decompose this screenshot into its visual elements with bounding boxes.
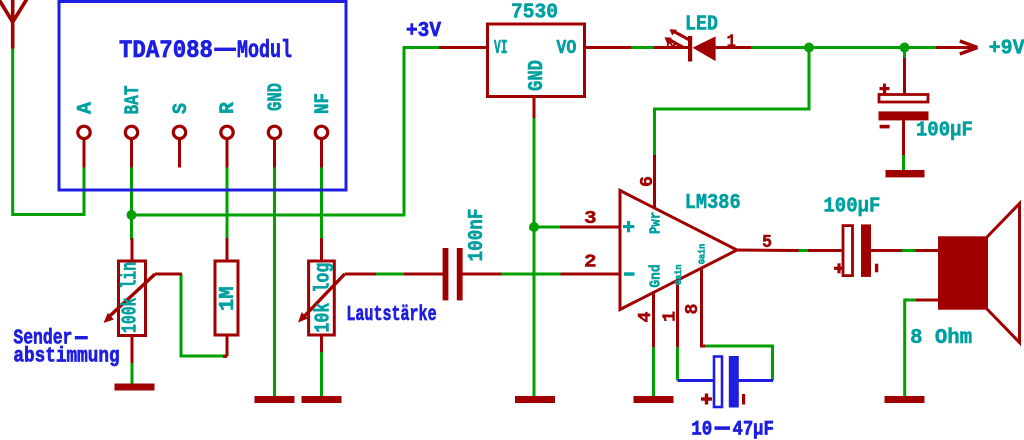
svg-text:6: 6 (638, 176, 658, 187)
svg-text:+3V: +3V (406, 20, 441, 43)
svg-text:LED: LED (685, 14, 718, 37)
svg-text:3: 3 (584, 209, 597, 229)
svg-text:A: A (74, 101, 97, 114)
svg-text:VI: VI (494, 37, 508, 59)
svg-text:10k log: 10k log (312, 263, 335, 333)
svg-text:5: 5 (762, 233, 772, 253)
svg-text:2: 2 (584, 253, 597, 273)
svg-text:47µF: 47µF (733, 419, 774, 440)
svg-text:VO: VO (556, 37, 576, 59)
svg-text:8 Ohm: 8 Ohm (910, 327, 972, 350)
svg-text:100nF: 100nF (466, 209, 489, 262)
svg-text:NF: NF (312, 93, 335, 114)
svg-text:Gnd: Gnd (648, 264, 665, 287)
svg-text:Pwr: Pwr (648, 212, 665, 234)
svg-text:7530: 7530 (511, 2, 558, 25)
svg-text:4: 4 (636, 311, 656, 322)
svg-text:10: 10 (691, 419, 712, 440)
svg-text:GND: GND (526, 60, 549, 91)
svg-text:1M: 1M (217, 286, 240, 311)
svg-text:LM386: LM386 (685, 192, 741, 215)
svg-text:100µF: 100µF (823, 196, 880, 219)
svg-text:BAT: BAT (122, 86, 145, 115)
svg-text:Modul: Modul (237, 36, 292, 65)
svg-text:2: 2 (665, 41, 679, 49)
svg-text:TDA7088: TDA7088 (119, 36, 213, 65)
svg-text:Lautstärke: Lautstärke (346, 304, 436, 327)
svg-text:Gain: Gain (696, 244, 707, 265)
svg-text:100k lin: 100k lin (120, 262, 143, 333)
svg-text:R: R (217, 101, 240, 114)
svg-text:GND: GND (265, 83, 288, 111)
svg-text:1: 1 (727, 33, 737, 53)
svg-text:S: S (170, 103, 193, 114)
svg-text:1: 1 (661, 311, 681, 322)
svg-text:+9V: +9V (989, 38, 1024, 61)
svg-text:Gain: Gain (673, 264, 684, 285)
svg-text:8: 8 (683, 304, 703, 315)
svg-text:abstimmung: abstimmung (13, 345, 119, 368)
svg-text:100µF: 100µF (916, 120, 973, 143)
